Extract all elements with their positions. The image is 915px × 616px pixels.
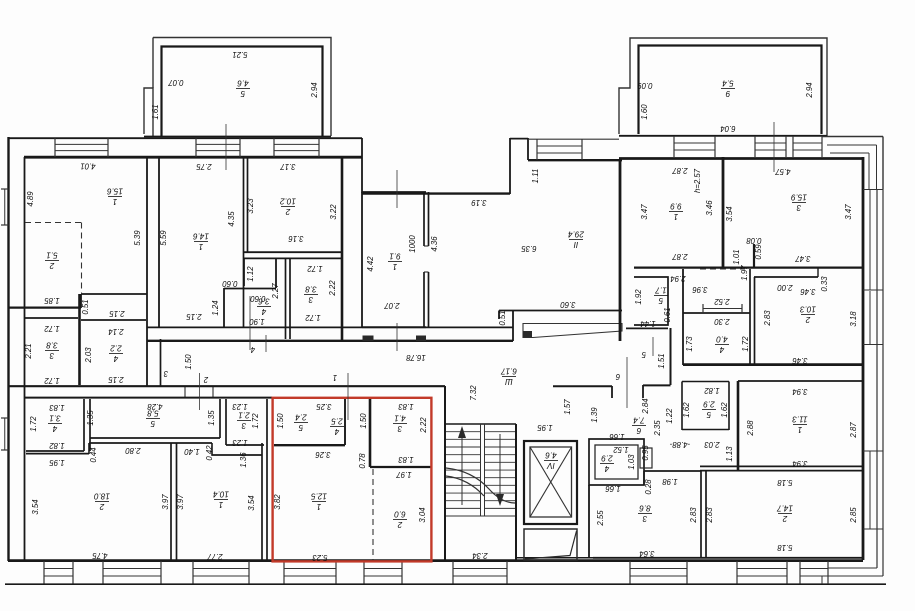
svg-text:2: 2 (805, 315, 811, 324)
svg-text:2.15: 2.15 (186, 312, 203, 321)
svg-text:0.51: 0.51 (81, 299, 90, 314)
svg-text:10.2: 10.2 (280, 196, 296, 205)
svg-text:5.8: 5.8 (147, 408, 159, 417)
wire room11.3 bottom a (700, 465, 863, 467)
svg-text:2: 2 (49, 261, 55, 270)
wire top inner wall left (24, 156, 362, 159)
wire dashed closet top (25, 222, 81, 224)
wire elevator outer (524, 441, 577, 524)
wire left inner face (24, 157, 26, 560)
wire recess left wall (361, 138, 363, 193)
svg-text:2.83: 2.83 (705, 507, 714, 524)
svg-text:2: 2 (285, 207, 291, 216)
svg-text:1.23: 1.23 (232, 402, 248, 411)
svg-text:14.7: 14.7 (777, 503, 793, 512)
svg-text:1.85: 1.85 (44, 296, 60, 305)
wire box 4/2.9 inner (595, 445, 638, 479)
svg-text:3.46: 3.46 (705, 200, 714, 216)
svg-text:1: 1 (798, 425, 803, 434)
wire niche 2.00 (754, 276, 818, 278)
wire rooms 3.6 top (244, 257, 342, 259)
svg-text:0.95: 0.95 (641, 445, 650, 461)
node dim tick c1 (347, 373, 349, 420)
svg-text:8.6: 8.6 (639, 503, 651, 512)
wire corridor wall double (160, 339, 162, 386)
svg-text:3: 3 (163, 369, 168, 378)
node window left 1 (1, 188, 9, 190)
wire wall 18|10.4 b (176, 443, 178, 560)
wire shaft 1.7 bottom (626, 327, 668, 329)
svg-text:2.22: 2.22 (419, 417, 428, 434)
node stair rungs (446, 431, 481, 433)
svg-text:1.98: 1.98 (662, 477, 678, 486)
node window topr W3 (792, 136, 794, 157)
svg-text:2.9: 2.9 (601, 453, 614, 462)
wire room4.0 left (682, 269, 684, 365)
svg-text:3: 3 (241, 421, 246, 430)
svg-text:16.78: 16.78 (406, 353, 426, 362)
wire room18 step (88, 443, 90, 454)
node window bottom 3 (192, 561, 194, 584)
wire top outer mid (528, 138, 619, 140)
svg-text:2.2: 2.2 (110, 343, 123, 352)
wire room9.9 bottom (634, 267, 863, 269)
svg-text:3.46: 3.46 (800, 287, 816, 296)
node dim tick c5 (652, 337, 654, 356)
svg-text:1.83: 1.83 (49, 403, 65, 412)
node window bottom 4 (283, 561, 285, 584)
svg-text:14.6: 14.6 (193, 231, 209, 240)
svg-text:4: 4 (113, 354, 118, 363)
svg-text:3.54: 3.54 (31, 499, 40, 515)
svg-text:3: 3 (642, 514, 647, 523)
wire room15.6 bottom left (8, 307, 81, 309)
wire left rooms top band (24, 397, 272, 399)
wire recess right wall (509, 138, 511, 194)
wire red dashed divider (372, 469, 374, 560)
wire corr bottom r1 (643, 384, 671, 386)
svg-text:4.57: 4.57 (775, 167, 791, 176)
svg-text:1: 1 (674, 212, 679, 221)
svg-text:3.97: 3.97 (176, 494, 185, 510)
svg-text:29.4: 29.4 (568, 229, 585, 238)
svg-text:15.6: 15.6 (107, 186, 123, 195)
svg-text:2: 2 (203, 375, 209, 384)
wire top inner wall mid (528, 159, 622, 161)
svg-text:3.94: 3.94 (792, 387, 808, 396)
svg-text:3.96: 3.96 (692, 285, 708, 294)
svg-text:2.30: 2.30 (714, 317, 731, 326)
svg-text:1.82: 1.82 (704, 386, 720, 395)
wire room2.2 top (81, 319, 146, 321)
svg-text:1.44: 1.44 (640, 319, 656, 328)
svg-text:3.18: 3.18 (849, 311, 858, 327)
svg-text:4.1: 4.1 (394, 413, 405, 422)
svg-text:4: 4 (604, 464, 609, 473)
svg-text:1.82: 1.82 (49, 441, 65, 450)
svg-text:2.94: 2.94 (670, 274, 687, 283)
svg-text:1.35: 1.35 (207, 410, 216, 426)
wire room11.3 bottom b (700, 470, 863, 472)
wire corr bottom r2 (553, 385, 612, 387)
wire right inner wall (862, 157, 865, 560)
svg-text:0.33: 0.33 (820, 276, 829, 292)
svg-text:1.90: 1.90 (249, 317, 265, 326)
node window left 2 (1, 417, 9, 419)
svg-text:1: 1 (199, 242, 204, 251)
wire loggia-left outer top (153, 38, 331, 137)
wire room11.3 top (738, 380, 863, 382)
svg-text:3.60: 3.60 (560, 300, 576, 309)
svg-text:1.01: 1.01 (732, 249, 741, 264)
wire lobby bottom band (516, 557, 593, 559)
wire room5.8 bottom (90, 437, 220, 439)
wire tr nest3 (830, 152, 869, 154)
svg-text:2.88: 2.88 (746, 420, 755, 437)
wire wall 3.6|3.8R b (289, 258, 291, 339)
svg-text:3: 3 (397, 424, 402, 433)
wire shaft 1.7 box (634, 277, 668, 325)
svg-text:4.6: 4.6 (545, 450, 557, 459)
svg-text:1.92: 1.92 (634, 289, 643, 305)
wire red wall 2.4|2.5 (344, 398, 346, 445)
svg-text:5: 5 (641, 350, 646, 359)
wire tr nest2 (827, 144, 877, 146)
svg-text:1.83: 1.83 (398, 402, 414, 411)
wire loggia-right sill (619, 135, 827, 137)
svg-text:4.0: 4.0 (716, 334, 728, 343)
svg-text:2: 2 (782, 514, 788, 523)
svg-text:1: 1 (333, 373, 337, 382)
node door jamb b (212, 386, 214, 398)
node window bottom 1 (43, 561, 45, 584)
svg-text:3.54: 3.54 (247, 495, 256, 511)
wire dashed closet side (81, 223, 83, 294)
node dim tick loggia-left (225, 124, 227, 170)
svg-text:4.75: 4.75 (92, 551, 108, 560)
svg-text:3.1: 3.1 (49, 413, 60, 422)
svg-text:10.4: 10.4 (213, 489, 229, 498)
wire room9.1 top (362, 191, 426, 193)
svg-text:1.35: 1.35 (86, 410, 95, 426)
svg-text:2.75: 2.75 (196, 162, 213, 171)
svg-text:2.15: 2.15 (108, 375, 125, 384)
svg-text:2.55: 2.55 (596, 510, 605, 527)
wire loggia-right outer (619, 38, 827, 136)
svg-text:6.35: 6.35 (521, 244, 537, 253)
svg-text:3.46: 3.46 (792, 356, 808, 365)
wire wall 2.1|red b (266, 399, 268, 560)
node sill sq 2 (416, 336, 426, 342)
node stair ramp curve (446, 468, 515, 503)
svg-text:1: 1 (393, 262, 398, 271)
svg-text:3: 3 (308, 295, 313, 304)
svg-text:1.72: 1.72 (251, 413, 260, 429)
svg-text:4: 4 (261, 307, 266, 316)
wire bottom inner wall (8, 559, 863, 562)
svg-text:2.85: 2.85 (849, 507, 858, 524)
svg-text:3.47: 3.47 (844, 204, 853, 220)
svg-text:2.83: 2.83 (763, 310, 772, 327)
wire room9.1 right b (428, 192, 430, 246)
svg-text:2.87: 2.87 (672, 166, 689, 175)
svg-text:0.60: 0.60 (222, 279, 238, 288)
svg-text:1.61: 1.61 (151, 104, 160, 119)
svg-text:2.07: 2.07 (384, 301, 401, 310)
wire red room inner wall (274, 444, 345, 446)
svg-text:3.22: 3.22 (329, 204, 338, 220)
svg-text:11.3: 11.3 (792, 414, 808, 423)
svg-text:9.9: 9.9 (670, 201, 682, 210)
wire red room4.1 bottom (370, 466, 431, 468)
wire room3.6 step (224, 288, 276, 290)
wire wall 8.6|14.7 b (705, 470, 707, 558)
wire wall 15.6|14.6 a (146, 157, 148, 386)
node window bottom 9 (799, 561, 801, 584)
svg-text:-4.88-: -4.88- (669, 440, 690, 449)
node dim tick 9.1top (396, 170, 398, 208)
node right win tick c (863, 344, 883, 346)
node dim tick c4 (249, 296, 251, 350)
svg-text:3.47: 3.47 (795, 254, 811, 263)
wire niche 0.60a (243, 258, 245, 286)
svg-text:2.84: 2.84 (641, 398, 650, 415)
svg-text:2.52: 2.52 (714, 297, 731, 306)
svg-text:6.04: 6.04 (720, 124, 736, 133)
svg-text:2.22: 2.22 (328, 280, 337, 297)
wire room8.6 step (643, 471, 645, 485)
wire right block floor (683, 363, 863, 366)
wire room18 top right (89, 442, 212, 444)
svg-text:3.04: 3.04 (418, 507, 427, 523)
svg-text:5: 5 (706, 410, 711, 419)
svg-text:2.15: 2.15 (109, 309, 126, 318)
svg-text:7.4: 7.4 (633, 415, 645, 424)
svg-text:1.66: 1.66 (609, 432, 625, 441)
svg-text:18.0: 18.0 (94, 491, 110, 500)
wire right outer wall (876, 189, 878, 568)
wire room9.1 right a (423, 192, 425, 246)
wire top outer line left (8, 137, 362, 139)
wire room3.1 bottom (26, 450, 84, 452)
node window top mid (536, 139, 538, 160)
svg-text:2.83: 2.83 (689, 507, 698, 524)
svg-text:2.77: 2.77 (207, 552, 224, 561)
wire corr step v1 (642, 385, 644, 398)
svg-text:4: 4 (52, 424, 57, 433)
svg-text:1: 1 (317, 502, 322, 511)
svg-text:0.78: 0.78 (358, 453, 367, 469)
wire wall 2.1|red a (261, 443, 263, 560)
wire stub 0.59 (753, 244, 755, 268)
svg-text:9.1: 9.1 (389, 251, 400, 260)
node window topr W1 (673, 136, 675, 157)
wire br nest2 (822, 575, 883, 577)
svg-text:II: II (573, 240, 578, 249)
wire loggia-right inner (639, 46, 822, 135)
svg-text:2.80: 2.80 (125, 446, 142, 455)
svg-text:3.8: 3.8 (305, 284, 317, 293)
wire corridor top wall (147, 340, 513, 342)
svg-text:1.72: 1.72 (44, 324, 60, 333)
svg-text:1.13: 1.13 (725, 446, 734, 462)
svg-text:12.5: 12.5 (311, 491, 327, 500)
svg-text:1: 1 (219, 500, 224, 509)
wire loggia-left sill (144, 136, 331, 138)
wire red wall 2.5|4.1 (369, 398, 372, 467)
svg-text:0.42: 0.42 (205, 445, 214, 461)
svg-text:5.1: 5.1 (46, 250, 57, 259)
node right win tick a (863, 189, 883, 191)
wire room2.1c bottom (226, 444, 264, 446)
node door 4.0 (702, 304, 704, 313)
svg-text:1.72: 1.72 (307, 264, 323, 273)
wire wall 4.0|10.3 b (754, 277, 756, 365)
svg-text:1.62: 1.62 (720, 402, 729, 418)
node elevator X (530, 447, 572, 517)
svg-text:5: 5 (150, 419, 155, 428)
wire wall 3.6|3.8R a (285, 258, 287, 339)
wire rooms bottom right (593, 557, 863, 559)
svg-text:10.3: 10.3 (800, 304, 816, 313)
svg-text:1.60: 1.60 (640, 104, 649, 120)
wire room9.1 bottom (362, 326, 426, 328)
node window top W3 (273, 138, 275, 157)
wire room8.6 top right (644, 470, 701, 472)
wire wall 8.6|14.7 a (700, 470, 702, 558)
wire room11.3 left (737, 381, 740, 470)
svg-text:1.83: 1.83 (398, 455, 414, 464)
svg-text:4: 4 (719, 345, 724, 354)
wire left corridor floor (9, 385, 445, 387)
svg-text:5.4: 5.4 (722, 78, 734, 87)
svg-text:1.95: 1.95 (49, 458, 65, 467)
svg-text:3.6: 3.6 (258, 296, 270, 305)
svg-text:1.72: 1.72 (29, 416, 38, 432)
svg-text:3.54: 3.54 (725, 206, 734, 222)
svg-text:1.62: 1.62 (682, 402, 691, 418)
svg-text:4: 4 (250, 345, 255, 354)
svg-text:1.50: 1.50 (184, 354, 193, 370)
svg-text:1000: 1000 (408, 235, 417, 253)
wire elevator inner (530, 447, 572, 517)
node right win mid c (869, 451, 871, 529)
wire dashed wall 9.9 (700, 268, 745, 270)
svg-text:1.24: 1.24 (211, 300, 220, 316)
wire wall 3.1|5.8 a (83, 399, 85, 451)
wire loggia-left inner (162, 47, 323, 137)
svg-text:0.28: 0.28 (644, 479, 653, 495)
svg-text:4.89: 4.89 (26, 191, 35, 207)
svg-text:3.47: 3.47 (640, 204, 649, 220)
node right win tick b (863, 289, 883, 291)
svg-text:2.87: 2.87 (672, 252, 689, 261)
svg-text:3.94: 3.94 (792, 459, 808, 468)
wire stair top (445, 423, 516, 425)
node dim tick c2 (199, 373, 201, 410)
node right win tick d (863, 450, 883, 452)
wire room15.6 bottom right (81, 293, 147, 295)
svg-text:5: 5 (240, 89, 245, 98)
wire wall 15.6|14.6 b (158, 157, 160, 327)
wire room5.29 box (682, 382, 729, 431)
svg-text:4.01: 4.01 (80, 162, 95, 171)
svg-text:4.35: 4.35 (227, 211, 236, 227)
wire wall 5.8|2.1 b (225, 399, 227, 445)
svg-text:3: 3 (49, 351, 54, 360)
node window top W2 (195, 138, 197, 157)
wire node 0.51 jog (80, 294, 82, 308)
svg-text:2.87: 2.87 (849, 422, 858, 439)
wire room3.8R right (341, 252, 344, 342)
svg-text:5.59: 5.59 (159, 230, 168, 246)
svg-text:1.12: 1.12 (246, 266, 255, 282)
svg-text:0.44: 0.44 (89, 447, 98, 463)
wire top inner wall right (619, 157, 863, 160)
svg-text:5.18: 5.18 (777, 543, 793, 552)
svg-text:3.82: 3.82 (273, 494, 282, 510)
node dim tick c6 (626, 357, 628, 408)
svg-text:6.0: 6.0 (394, 509, 406, 518)
svg-text:1.57: 1.57 (563, 399, 572, 415)
wire room4.0 top (683, 312, 750, 314)
svg-text:1.66: 1.66 (605, 484, 621, 493)
wire niche 0.60b (275, 258, 277, 288)
svg-text:2.5: 2.5 (331, 416, 344, 425)
svg-text:2.21: 2.21 (24, 343, 33, 359)
wire right outer wall2 (882, 189, 884, 576)
svg-text:1.36: 1.36 (239, 452, 248, 468)
wire wall 14.6|10.2 a (243, 157, 245, 327)
wire room18 top left (26, 453, 89, 455)
svg-text:4.42: 4.42 (366, 256, 375, 272)
wire room9.1 left (361, 192, 363, 327)
svg-text:7.32: 7.32 (469, 385, 478, 401)
wire room10.2 bottom (244, 251, 342, 253)
wire outer baseline (5, 583, 886, 585)
svg-text:1.39: 1.39 (590, 407, 599, 423)
svg-text:2.1: 2.1 (238, 410, 250, 419)
wire corridor top outer (147, 326, 513, 328)
wire tr outer (822, 136, 883, 138)
node window top W1 (54, 138, 56, 157)
wire stair left wall (444, 386, 446, 560)
svg-text:0.09: 0.09 (637, 81, 653, 90)
svg-text:2.4: 2.4 (295, 412, 308, 421)
svg-text:1.97: 1.97 (396, 470, 412, 479)
node sill sq 1 (363, 336, 374, 342)
node dim tick loggia-right (773, 122, 775, 172)
svg-text:5: 5 (298, 423, 303, 432)
wire wall 14.6|10.2 b (247, 157, 249, 252)
svg-text:5.23: 5.23 (312, 553, 328, 562)
svg-text:0.07: 0.07 (168, 78, 184, 87)
node right win mid a (869, 189, 871, 290)
wire room10.4 top right (212, 454, 262, 456)
svg-text:1.73: 1.73 (685, 336, 694, 352)
svg-text:2.94: 2.94 (310, 82, 319, 99)
wire stair center a (480, 424, 482, 516)
svg-text:6: 6 (636, 426, 641, 435)
wire wall 3.1|5.8 b (89, 399, 91, 451)
wire stair center b (484, 424, 486, 516)
svg-text:6.17: 6.17 (501, 366, 517, 375)
svg-text:1.52: 1.52 (613, 445, 629, 454)
wire step 1.11 wall (527, 138, 529, 160)
svg-text:2.03: 2.03 (84, 347, 93, 364)
svg-text:4: 4 (334, 427, 339, 436)
wire room3.8L top (24, 317, 78, 319)
